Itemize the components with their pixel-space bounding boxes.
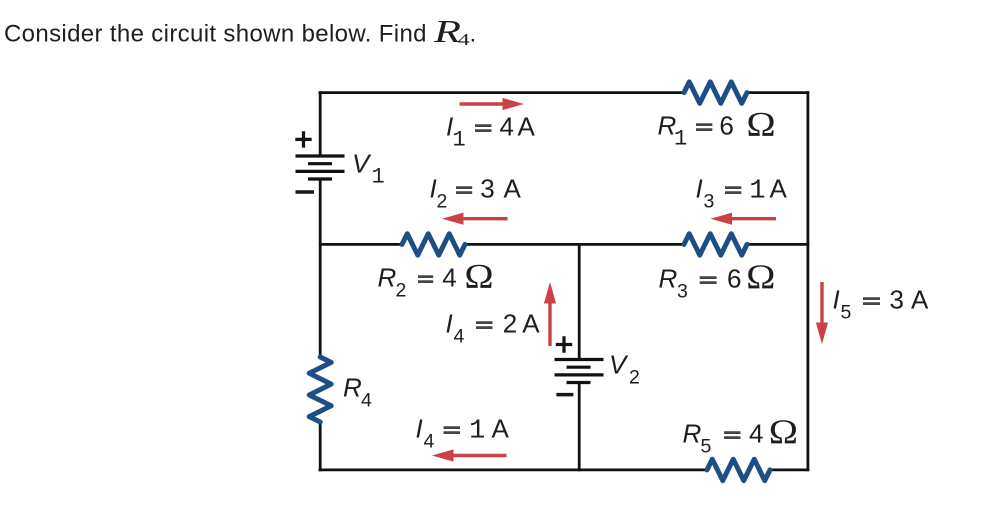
svg-text:R: R <box>343 373 362 403</box>
svg-text:2: 2 <box>437 191 448 213</box>
battery V1 plus sign <box>295 131 311 147</box>
battery V1 plate long top <box>296 154 345 157</box>
wire bottom side left of R5 <box>319 468 708 471</box>
svg-text:5: 5 <box>841 302 852 324</box>
label R2 = 4 ohm <box>378 258 494 302</box>
svg-text:1: 1 <box>453 128 466 153</box>
battery V2 minus sign <box>556 393 573 397</box>
svg-text:V: V <box>609 350 629 380</box>
wire right side <box>807 91 810 471</box>
svg-text:3: 3 <box>677 281 688 303</box>
svg-text:R: R <box>378 263 397 293</box>
svg-text:Ω: Ω <box>769 413 798 452</box>
current arrow I2 (left) <box>442 213 508 225</box>
wire middle vertical top (node to V2 + plate) <box>578 243 581 360</box>
svg-text:4: 4 <box>442 263 456 293</box>
label R1 = 6 ohm <box>658 106 776 152</box>
label I5 = 3 A <box>833 285 930 324</box>
battery V1 plate short upper <box>308 162 332 165</box>
svg-text:A: A <box>518 112 536 142</box>
label R5 = 4 ohm <box>683 413 799 457</box>
label R4 <box>343 373 372 412</box>
current arrow I5 (down) <box>816 282 828 344</box>
svg-text:A: A <box>911 285 929 315</box>
svg-text:R: R <box>659 264 678 294</box>
current arrow I4=1A (left) <box>432 449 507 461</box>
svg-text:2: 2 <box>396 280 407 302</box>
wire left side top (to V1 + plate) <box>319 91 322 156</box>
svg-text:4: 4 <box>424 431 435 453</box>
resistor R2 zigzag <box>402 234 465 255</box>
battery V1 minus sign <box>296 190 315 194</box>
wire left side bottom (R4 to corner) <box>319 422 322 471</box>
current arrow I3 (left) <box>711 213 777 225</box>
svg-text:I: I <box>446 309 453 339</box>
svg-text:5: 5 <box>701 436 712 458</box>
label I4 = 1 A (lower) <box>416 414 510 453</box>
svg-text:.: . <box>470 21 477 48</box>
svg-text:R: R <box>433 15 461 50</box>
wire middle horizontal right of R3 <box>747 243 809 246</box>
svg-text:2: 2 <box>503 309 517 339</box>
svg-text:1: 1 <box>674 127 687 152</box>
battery V1 plate short bottom <box>308 177 332 180</box>
svg-text:4: 4 <box>500 112 514 142</box>
svg-text:4: 4 <box>454 326 465 348</box>
battery V2 plate long top <box>555 358 604 361</box>
svg-text:3: 3 <box>480 174 494 204</box>
svg-text:3: 3 <box>704 191 715 213</box>
label I1 = 4 A <box>446 112 536 153</box>
svg-text:6: 6 <box>719 111 733 141</box>
svg-text:6: 6 <box>727 264 741 294</box>
resistor R5 zigzag <box>707 459 770 480</box>
current arrow I4=2A (up) <box>544 282 556 346</box>
svg-text:I: I <box>833 285 840 315</box>
wire top side left of R1 <box>319 91 685 94</box>
resistor R3 zigzag <box>684 234 747 255</box>
svg-text:Ω: Ω <box>746 106 775 145</box>
resistor R1 zigzag <box>684 82 747 103</box>
svg-text:4: 4 <box>361 390 372 412</box>
svg-text:A: A <box>492 414 510 444</box>
wire middle vertical bottom (V2 - plate to bottom wire) <box>578 383 581 472</box>
label V2 <box>609 350 640 389</box>
svg-text:Consider the circuit shown bel: Consider the circuit shown below. Find <box>4 21 427 48</box>
svg-text:Ω: Ω <box>464 258 493 297</box>
wire top side right of R1 <box>747 91 809 94</box>
svg-text:A: A <box>770 174 788 204</box>
current arrow I1 (right) <box>460 98 525 110</box>
svg-text:1: 1 <box>469 417 485 447</box>
wire middle horizontal between R2 and R3 <box>465 243 684 246</box>
wire left side middle (V1 - plate to R4) <box>319 179 322 357</box>
svg-text:2: 2 <box>629 367 640 389</box>
svg-text:A: A <box>504 174 522 204</box>
svg-text:4: 4 <box>749 419 763 449</box>
battery V2 plate long lower <box>555 373 604 376</box>
title text <box>4 15 476 50</box>
svg-text:3: 3 <box>890 285 904 315</box>
battery V1 plate long lower <box>296 170 345 173</box>
label R3 = 6 ohm <box>659 258 776 302</box>
label I4 = 2 A (upper) <box>446 309 541 348</box>
svg-text:I: I <box>696 174 703 204</box>
battery V2 plate short upper <box>567 366 591 369</box>
svg-text:I: I <box>416 414 423 444</box>
label I2 = 3 A <box>430 174 522 213</box>
svg-text:4: 4 <box>458 31 470 49</box>
svg-text:V: V <box>352 149 372 179</box>
svg-text:1: 1 <box>372 165 385 190</box>
svg-text:R: R <box>683 419 702 449</box>
label V1 <box>352 149 385 190</box>
svg-text:1: 1 <box>749 177 765 207</box>
label I3 = 1 A <box>696 174 788 213</box>
svg-text:A: A <box>522 309 540 339</box>
resistor R4 zigzag (vertical) <box>309 357 331 422</box>
battery V2 plate short bottom <box>567 381 591 384</box>
battery V2 plus sign <box>556 336 572 352</box>
svg-text:Ω: Ω <box>746 258 775 297</box>
wire middle horizontal left of R2 <box>319 243 402 246</box>
wire bottom side right of R5 <box>770 468 809 471</box>
